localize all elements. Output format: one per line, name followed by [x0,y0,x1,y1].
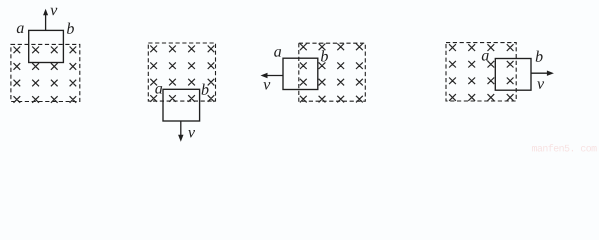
figure 1 flux crosses row 2 [14,63,77,70]
figure 1 field region dashed boundary [11,44,80,101]
figure 1 label b [67,23,74,34]
figure 2 field region dashed boundary [148,43,215,101]
figure 3 flux crosses row 3 [300,79,363,86]
figure 3 label v [263,82,270,89]
figure 2 velocity arrow v (down) [180,121,182,136]
figure 1 label v [50,8,57,15]
figure 4 flux crosses row 2 [449,61,513,68]
figure 4 flux crosses row 1 [449,44,513,51]
figure 3 label a [274,49,281,57]
figure 4 loop ab [495,59,531,91]
figure 3 loop ab [283,58,318,89]
figure 2 label a [155,86,162,94]
figure 3 flux crosses row 1 [300,44,363,51]
figure 1 flux crosses row 4 [14,96,77,103]
figure 4 velocity arrow v (right) [531,72,548,74]
figure 2 label b [202,84,209,95]
figure 1 flux crosses row 1 [14,47,77,54]
watermark manfen5.com [532,144,597,151]
figure 1 loop ab [29,30,64,62]
figure 4 flux crosses row 3 [449,78,513,85]
figure 1 velocity arrow v (up) [45,14,47,31]
figure 3 velocity arrow v (left) [266,75,283,77]
figure 2 flux crosses row 3 [150,79,214,86]
figure 1 flux crosses row 3 [14,80,77,87]
figure 4 label b [536,51,543,62]
figure 3 field region dashed boundary [299,43,366,101]
figure 1 label a [17,25,24,33]
figure 3 flux crosses row 4 [300,96,363,103]
figure 4 label v [537,81,544,88]
figure 2 flux crosses row 4 [150,95,214,102]
figure 2 flux crosses row 1 [150,46,214,53]
figure 4 field region dashed boundary [446,43,516,101]
figure 2 label v [188,130,195,137]
figure 4 label a [482,53,489,61]
figure 2 flux crosses row 2 [150,62,214,69]
figure 2 loop ab [163,89,200,121]
figure 4 flux crosses row 4 [449,94,513,101]
figure 3 label b [321,50,328,61]
figure 3 flux crosses row 2 [300,62,363,69]
